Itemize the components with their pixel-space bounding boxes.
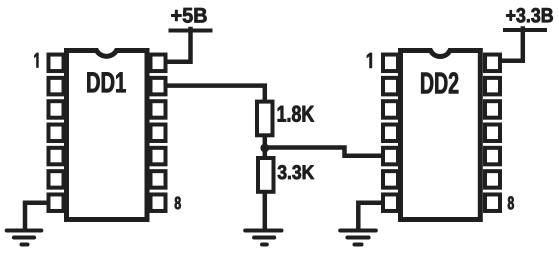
pin 1 label DD1 <box>35 53 39 68</box>
ground (below 3.3K) <box>245 231 281 245</box>
ground (DD1) <box>7 231 42 245</box>
wire 1.8K to 3.3K through junction <box>263 135 268 157</box>
wire 3.3K to ground <box>263 192 268 231</box>
pin 8 label DD1 <box>175 197 181 210</box>
IC DD1 body <box>67 51 148 220</box>
power +3.3V rail bar <box>503 28 547 32</box>
label 1.8K <box>278 106 314 122</box>
ground (DD2) <box>340 231 376 245</box>
IC DD2 label <box>421 72 458 93</box>
IC DD2 left pins 1-7 <box>383 55 398 211</box>
IC DD1 left pins 1-7 <box>49 55 64 211</box>
wire DD1 pin7 to ground <box>25 203 49 231</box>
wire DD2 pin14 to +3.3V rail <box>500 26 523 61</box>
pin 8 label DD2 <box>508 196 514 209</box>
+3.3V label <box>506 8 553 23</box>
resistor 1.8K <box>257 102 273 136</box>
wire DD1 pin13 to resistor 1.8K <box>166 86 265 101</box>
wire junction to DD2 pin 5 <box>265 148 381 156</box>
resistor 3.3K <box>258 158 274 192</box>
+5V label <box>171 8 206 23</box>
power +5V rail bar <box>169 29 213 33</box>
IC DD1 right pins 8-14 <box>151 55 166 211</box>
label 3.3K <box>278 165 314 179</box>
IC DD1 label <box>87 72 125 92</box>
node junction dot <box>260 144 269 153</box>
wire DD1 pin14 to +5V rail <box>166 27 191 62</box>
IC DD2 body <box>401 51 481 220</box>
pin 1 label DD2 <box>367 53 372 68</box>
IC DD2 right pins 8-14 <box>485 55 500 211</box>
wire DD2 pin7 to ground <box>358 203 383 231</box>
